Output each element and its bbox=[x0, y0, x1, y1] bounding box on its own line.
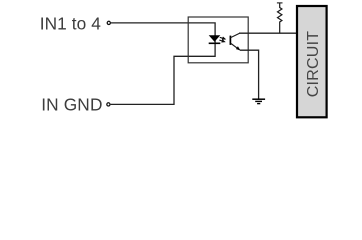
svg-text:IN1 to 4: IN1 to 4 bbox=[40, 13, 102, 33]
svg-text:CIRCUIT: CIRCUIT bbox=[305, 31, 322, 98]
svg-text:IN GND: IN GND bbox=[41, 94, 102, 114]
